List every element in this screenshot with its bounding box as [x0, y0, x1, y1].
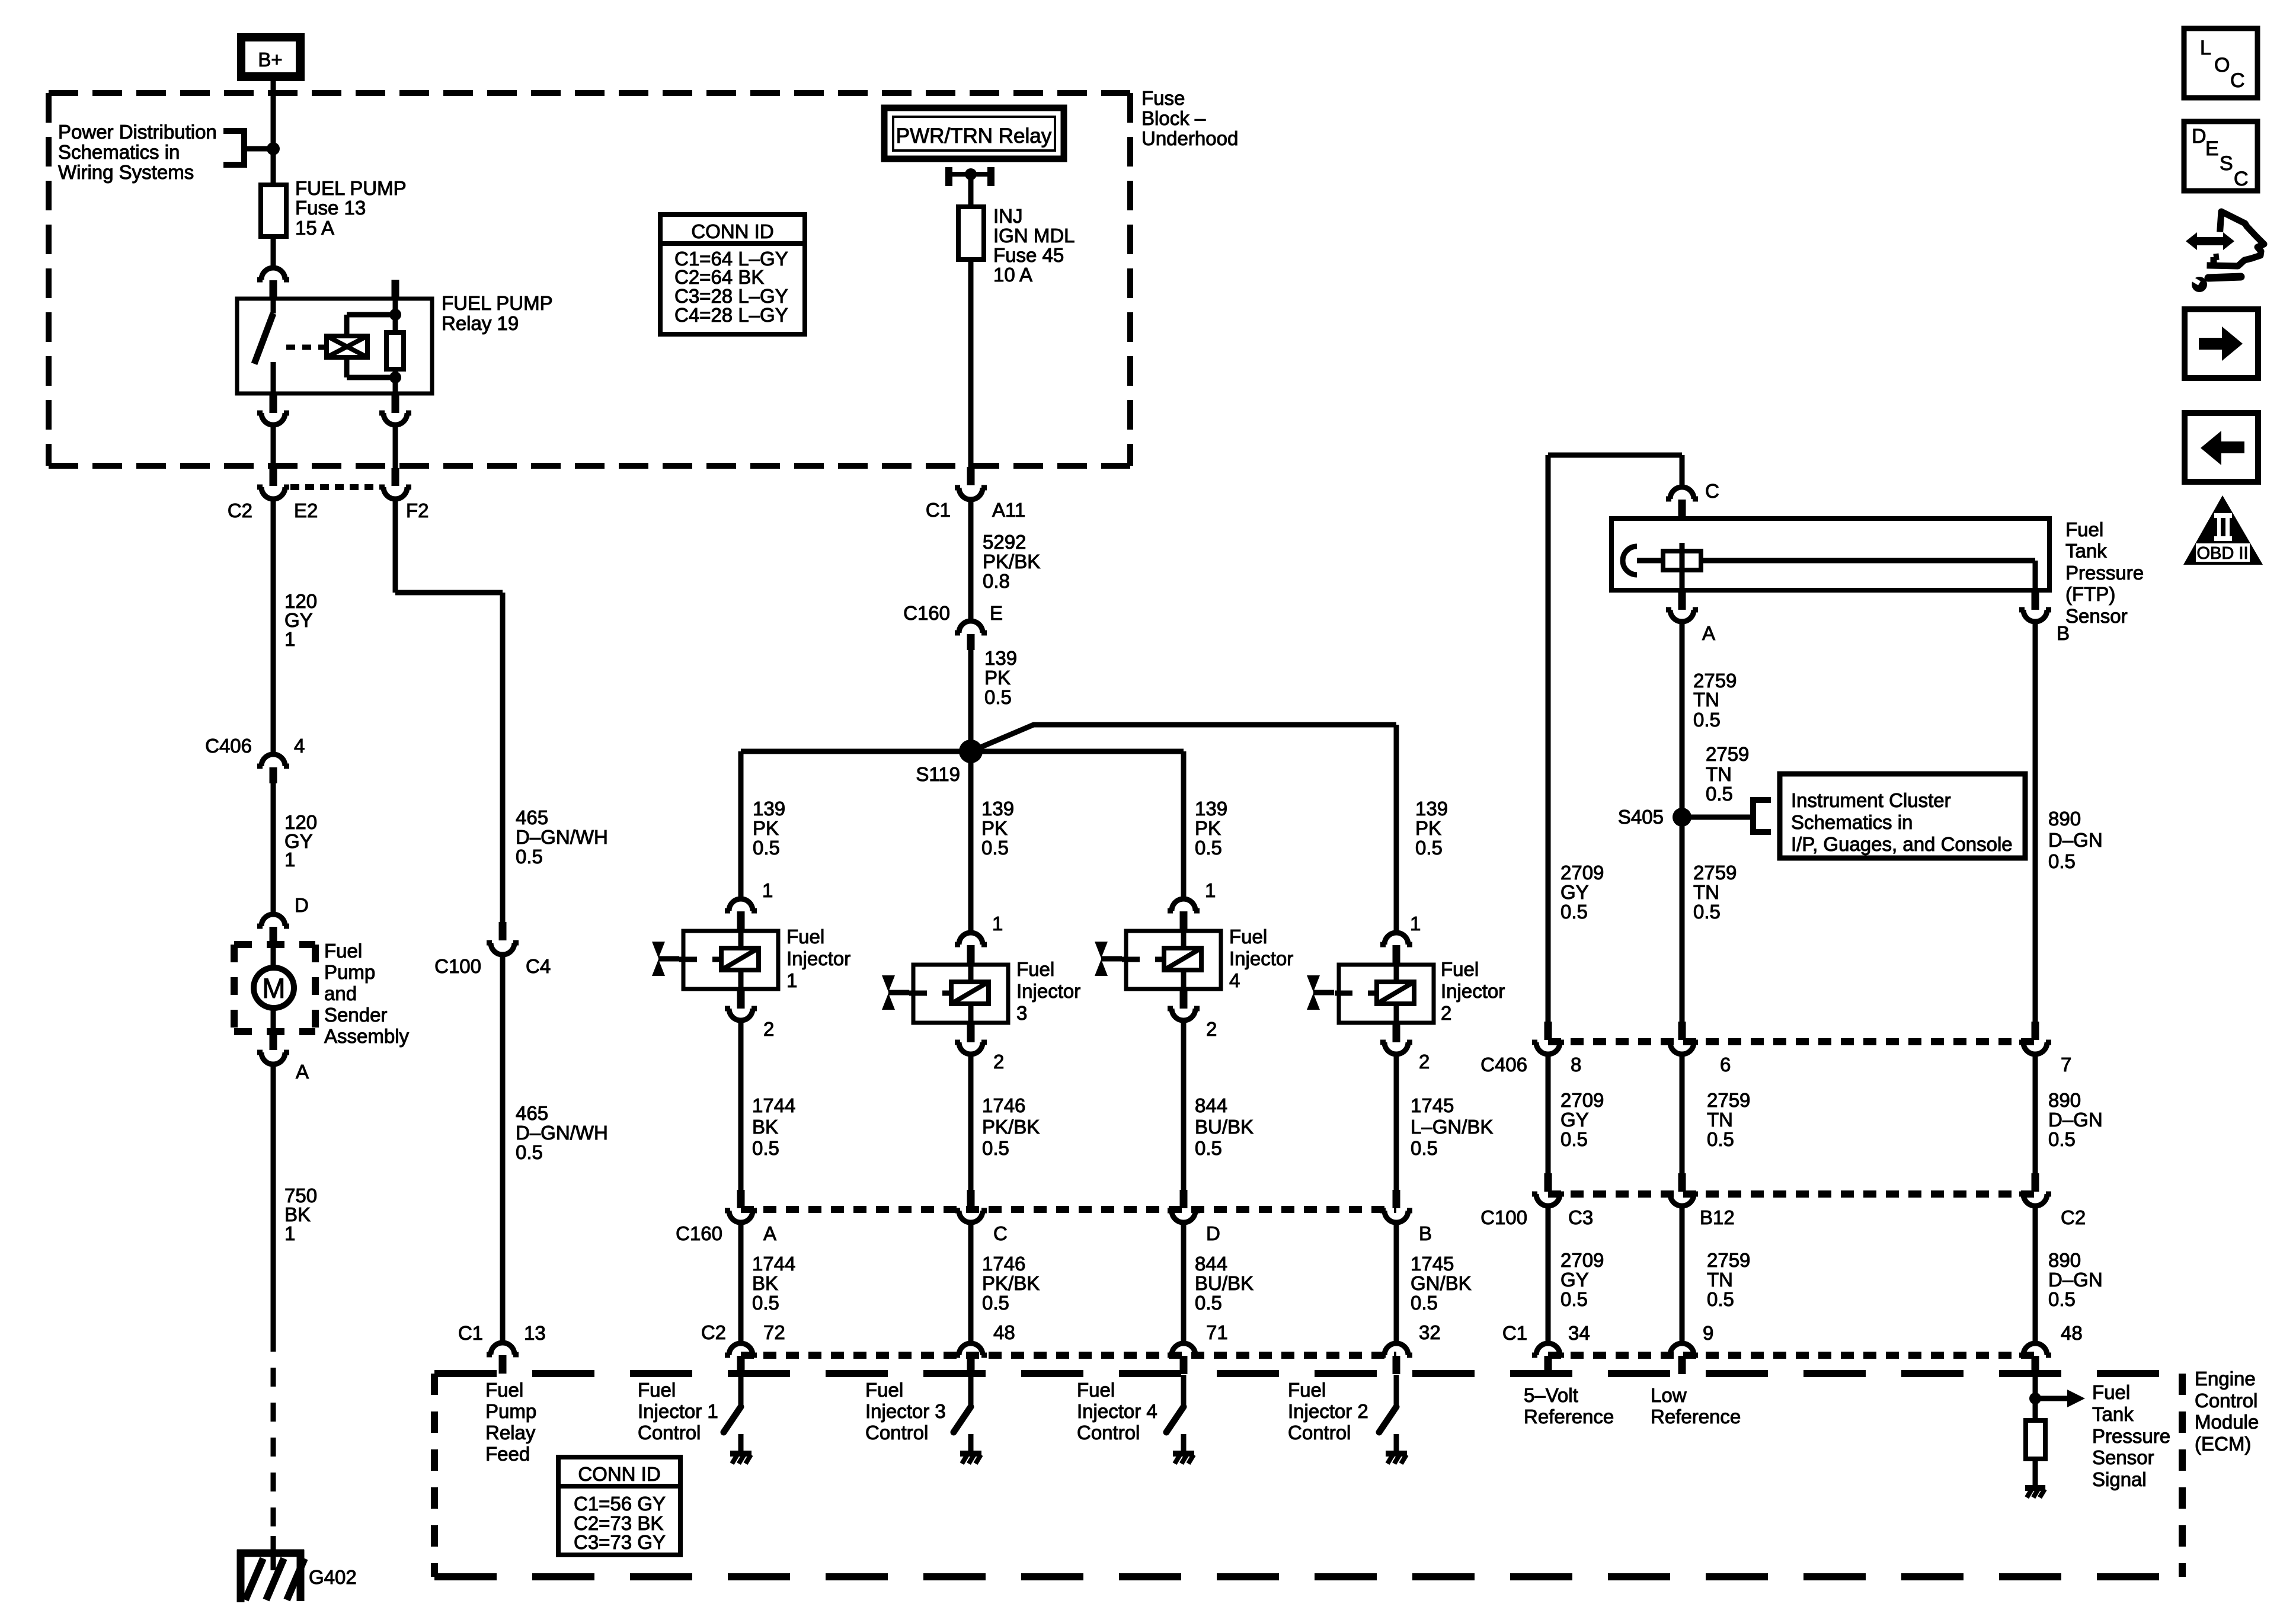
label E2	[294, 500, 318, 521]
svg-text:0.5: 0.5	[752, 1292, 779, 1314]
svg-text:TN: TN	[1693, 881, 1719, 903]
wire B+ to junction	[271, 81, 276, 149]
svg-text:Injector: Injector	[786, 948, 850, 969]
label Fuel Injector 2 Control	[1288, 1379, 1368, 1443]
connector C100 pin C2	[2019, 1173, 2051, 1206]
wire C160B to ECM	[1394, 1223, 1399, 1343]
svg-text:S: S	[2220, 152, 2233, 175]
svg-text:L–GN/BK: L–GN/BK	[1411, 1116, 1493, 1138]
svg-text:F2: F2	[406, 500, 429, 521]
label 2759 TN 0.5 (1)	[1693, 670, 1737, 731]
svg-text:Sensor: Sensor	[2065, 605, 2128, 627]
svg-text:2709: 2709	[1560, 1249, 1604, 1271]
svg-text:BU/BK: BU/BK	[1195, 1272, 1253, 1294]
svg-text:1: 1	[284, 1222, 295, 1244]
label 844 BU/BK 0.5 (upper)	[1195, 1094, 1253, 1159]
ECM driver switch injector 4	[1166, 1375, 1184, 1453]
svg-text:I/P, Guages, and Console: I/P, Guages, and Console	[1791, 833, 2013, 855]
label injector2 pin 2	[1419, 1051, 1430, 1073]
icon vehicle double arrow	[2186, 232, 2234, 250]
label pin 9	[1703, 1322, 1713, 1344]
svg-text:15 A: 15 A	[295, 217, 334, 239]
connector C160 pin B	[1380, 1190, 1412, 1222]
svg-text:1744: 1744	[752, 1094, 795, 1116]
table CONN ID (ECM)	[558, 1457, 680, 1555]
svg-text:GN/BK: GN/BK	[1411, 1272, 1472, 1294]
svg-text:C1=56 GY: C1=56 GY	[574, 1493, 666, 1515]
svg-text:0.5: 0.5	[2048, 1128, 2076, 1150]
svg-text:2709: 2709	[1560, 1089, 1604, 1111]
label C2	[228, 500, 252, 521]
label C160 (row)	[676, 1222, 722, 1244]
wire FTP A to S405	[1680, 622, 1685, 813]
connector ECM C2 pin 71	[1168, 1343, 1200, 1374]
connector pump pin A	[257, 1032, 289, 1064]
svg-text:Instrument Cluster: Instrument Cluster	[1791, 789, 1951, 811]
label 2759 TN 0.5 (4)	[1707, 1089, 1750, 1150]
wire S119 to injector 4 branch	[971, 751, 1184, 898]
reference bracket instrument cluster	[1682, 797, 1771, 835]
ECM driver switch injector 1	[724, 1375, 741, 1453]
label C2 (row)	[701, 1321, 726, 1343]
label pin 4	[294, 735, 305, 757]
svg-text:Fuel: Fuel	[324, 940, 362, 962]
relay PWR/TRN Relay label box	[884, 108, 1064, 159]
svg-text:FUEL PUMP: FUEL PUMP	[295, 177, 407, 199]
svg-text:890: 890	[2048, 1089, 2081, 1111]
label pin A	[763, 1222, 776, 1244]
label 1744 BK 0.5 (lower)	[752, 1253, 795, 1314]
svg-text:PK: PK	[981, 817, 1008, 839]
wire relay right output to F2	[393, 425, 398, 469]
svg-text:PK: PK	[1195, 817, 1221, 839]
svg-text:Pressure: Pressure	[2092, 1425, 2170, 1447]
label pin D	[295, 894, 309, 916]
svg-text:Fuse 45: Fuse 45	[993, 244, 1064, 266]
injector Fuel Injector 2	[1335, 965, 1434, 1023]
svg-text:C100: C100	[434, 955, 481, 977]
valve injector 3 nozzle	[882, 975, 909, 1010]
svg-text:0.5: 0.5	[1411, 1137, 1438, 1159]
wire D to motor	[271, 946, 276, 968]
svg-text:Fuel: Fuel	[2065, 518, 2103, 540]
svg-text:0.5: 0.5	[1195, 1137, 1222, 1159]
svg-text:844: 844	[1195, 1094, 1227, 1116]
ground ECM FTP	[2025, 1488, 2045, 1497]
wire E2 to C406	[271, 500, 276, 754]
svg-text:Injector: Injector	[1441, 980, 1505, 1002]
svg-text:1: 1	[284, 849, 295, 870]
connector row dotted C2	[741, 1352, 1396, 1359]
svg-text:3: 3	[1016, 1002, 1027, 1024]
connector fuse13-relay pin	[257, 268, 289, 299]
svg-text:0.5: 0.5	[1706, 783, 1733, 805]
svg-text:Injector 3: Injector 3	[865, 1400, 946, 1422]
label pin 13	[524, 1322, 546, 1344]
wire C4 to C1/13	[500, 955, 506, 1342]
svg-text:139: 139	[753, 798, 785, 820]
label C406 (row)	[1480, 1054, 1527, 1076]
connector injector3 pin 2	[955, 1024, 987, 1054]
node splice S405	[1673, 808, 1691, 827]
ground ECM injector 4 driver	[1173, 1454, 1194, 1464]
svg-text:S405: S405	[1618, 806, 1664, 828]
wire injector3 to C160/C	[968, 1055, 974, 1190]
svg-text:G402: G402	[309, 1566, 357, 1588]
wire C406/6 to C100/B12	[1680, 1055, 1685, 1173]
svg-text:TN: TN	[1707, 1109, 1733, 1131]
resistor relay coil suppression	[386, 315, 404, 377]
connector C406 pin 6	[1666, 1022, 1698, 1054]
svg-text:Assembly: Assembly	[324, 1025, 410, 1047]
connector C100 pin C3	[1532, 1173, 1564, 1206]
svg-text:C2: C2	[2061, 1206, 2086, 1228]
fuse block internal connection	[945, 167, 994, 207]
connector FTP pin B	[2019, 591, 2051, 622]
fuel pump and sender assembly dashed box	[234, 945, 315, 1032]
svg-text:PK: PK	[1415, 817, 1441, 839]
icon back arrow box	[2185, 413, 2258, 482]
wire A11 to C160/E	[968, 500, 974, 620]
injector Fuel Injector 4	[1122, 931, 1221, 989]
svg-text:Low: Low	[1651, 1384, 1687, 1406]
svg-text:1: 1	[284, 628, 295, 650]
svg-text:0.5: 0.5	[1693, 709, 1721, 731]
label pin B12	[1700, 1206, 1735, 1228]
wire C100/C3 to C1/34	[1546, 1206, 1551, 1343]
label FUEL PUMP Relay 19	[442, 292, 553, 334]
svg-text:A: A	[1702, 622, 1715, 644]
power symbol B+	[237, 33, 305, 81]
wire dashed run to G402	[271, 1333, 276, 1536]
svg-text:10 A: 10 A	[993, 264, 1032, 286]
icon DESC box	[2184, 121, 2257, 191]
svg-text:Fuel: Fuel	[865, 1379, 903, 1401]
svg-text:C1: C1	[926, 499, 951, 521]
node relay coil top	[389, 299, 401, 321]
svg-text:C1: C1	[1502, 1322, 1527, 1344]
svg-text:B: B	[2057, 622, 2070, 644]
svg-text:CONN ID: CONN ID	[578, 1463, 660, 1485]
svg-text:Fuel: Fuel	[485, 1379, 523, 1401]
label 139 PK 0.5 injector3	[981, 798, 1014, 859]
label C406	[205, 735, 252, 757]
svg-text:E2: E2	[294, 500, 318, 521]
svg-text:7: 7	[2061, 1054, 2071, 1076]
svg-text:0.5: 0.5	[752, 1137, 779, 1159]
connector injector4 pin 2	[1168, 990, 1200, 1020]
svg-text:D–GN/WH: D–GN/WH	[516, 1122, 608, 1144]
svg-text:C160: C160	[903, 602, 950, 624]
wire FTP B to C406/7	[2033, 622, 2038, 1022]
label Fuel Injector 2	[1441, 958, 1505, 1024]
label Low Reference	[1651, 1384, 1741, 1427]
icon LOC box	[2184, 28, 2257, 98]
label 1745 L-GN/BK 0.5 (upper)	[1411, 1094, 1493, 1159]
label 2709 GY 0.5 (2)	[1560, 1089, 1604, 1150]
label 139 PK 0.5 injector4	[1195, 798, 1227, 859]
svg-text:5–Volt: 5–Volt	[1524, 1384, 1578, 1406]
label Engine Control Module (ECM)	[2195, 1368, 2259, 1455]
svg-text:Schematics in: Schematics in	[1791, 811, 1913, 833]
label 2759 TN 0.5 (5)	[1707, 1249, 1750, 1310]
label injector4 pin 1	[1205, 879, 1216, 901]
fuse INJ IGN MDL Fuse 45 10A	[958, 207, 984, 260]
svg-text:2759: 2759	[1706, 743, 1749, 765]
svg-text:Control: Control	[638, 1422, 701, 1443]
label Fuel Injector 4 Control	[1077, 1379, 1157, 1443]
svg-text:8: 8	[1571, 1054, 1581, 1076]
valve injector 4 nozzle	[1095, 942, 1122, 976]
svg-text:Tank: Tank	[2092, 1403, 2134, 1425]
label pin B	[1419, 1222, 1432, 1244]
wire relay left output to C2	[271, 425, 276, 469]
motor M fuel pump	[254, 968, 294, 1008]
connector C160 pin E	[955, 621, 987, 650]
svg-text:GY: GY	[1560, 1109, 1589, 1131]
svg-text:Control: Control	[2195, 1390, 2257, 1411]
label C100 (left)	[434, 955, 481, 977]
svg-text:2: 2	[1441, 1002, 1451, 1024]
svg-text:2709: 2709	[1560, 862, 1604, 884]
svg-text:Pump: Pump	[324, 961, 375, 983]
svg-text:Block –: Block –	[1141, 107, 1206, 129]
connector injector2 pin 1	[1380, 933, 1412, 964]
svg-text:D: D	[2192, 125, 2207, 148]
connector C406 pin 7	[2019, 1022, 2051, 1054]
svg-text:0.5: 0.5	[2048, 1288, 2076, 1310]
svg-text:Fuel: Fuel	[638, 1379, 676, 1401]
relay switch blade	[254, 299, 273, 393]
svg-text:0.5: 0.5	[516, 1141, 543, 1163]
svg-text:Feed: Feed	[485, 1443, 530, 1465]
svg-text:PWR/TRN Relay: PWR/TRN Relay	[896, 124, 1052, 148]
wire injector1 to C160/A	[738, 1021, 744, 1190]
svg-text:0.5: 0.5	[1693, 901, 1721, 923]
label C100 (row)	[1480, 1206, 1527, 1228]
engine control module dashed box	[434, 1374, 2182, 1577]
fuse block - underhood dashed box	[49, 93, 1130, 466]
svg-text:Control: Control	[1288, 1422, 1351, 1443]
svg-text:0.5: 0.5	[1415, 837, 1443, 859]
label pin C4	[526, 955, 551, 977]
svg-text:Pump: Pump	[485, 1400, 536, 1422]
label Fuel Pump Relay Feed	[485, 1379, 536, 1465]
label pin 6	[1720, 1054, 1731, 1076]
icon OBD II triangle	[2183, 495, 2263, 565]
label pin 48	[993, 1321, 1015, 1343]
svg-text:Fuel: Fuel	[1077, 1379, 1115, 1401]
wire C406/8 to C100/C3	[1546, 1055, 1551, 1173]
icon vehicle outline	[2210, 212, 2264, 266]
svg-text:72: 72	[763, 1321, 785, 1343]
label INJ IGN MDL Fuse 45 10 A	[993, 205, 1075, 286]
wire junction to fuse 13	[271, 149, 276, 185]
arrow FTP sensor signal	[2035, 1390, 2085, 1407]
label pin A11	[992, 499, 1025, 521]
wire 5V ref loop	[1548, 455, 1682, 1022]
label pin E	[990, 602, 1003, 624]
relay coil loop wires	[347, 315, 395, 377]
svg-text:48: 48	[2061, 1322, 2083, 1344]
svg-text:E: E	[990, 602, 1003, 624]
svg-text:Engine: Engine	[2195, 1368, 2256, 1390]
wire F2 to jog	[395, 500, 503, 922]
fuse FUEL PUMP Fuse 13 15A	[261, 185, 286, 236]
svg-text:Module: Module	[2195, 1411, 2259, 1433]
label injector2 pin 1	[1410, 913, 1421, 934]
svg-text:Fuel: Fuel	[2092, 1381, 2130, 1403]
svg-text:Injector 4: Injector 4	[1077, 1400, 1157, 1422]
connector C160 pin A	[725, 1190, 757, 1222]
label 1746 PK/BK 0.5 (upper)	[982, 1094, 1040, 1159]
wire C160D to ECM	[1181, 1223, 1187, 1343]
svg-text:5292: 5292	[983, 531, 1026, 553]
svg-text:B12: B12	[1700, 1206, 1735, 1228]
svg-text:Power Distribution: Power Distribution	[58, 121, 217, 143]
svg-text:D: D	[1206, 1222, 1220, 1244]
svg-text:A: A	[296, 1061, 309, 1083]
table CONN ID (fuse block)	[660, 215, 805, 334]
svg-text:S119: S119	[916, 763, 960, 785]
label pin 48	[2061, 1322, 2083, 1344]
label 2759 TN 0.5 (2)	[1706, 743, 1749, 805]
svg-text:IGN MDL: IGN MDL	[993, 225, 1075, 247]
label 139 PK 0.5 injector2	[1415, 798, 1448, 859]
svg-text:Fuel: Fuel	[1288, 1379, 1326, 1401]
svg-text:B: B	[1419, 1222, 1432, 1244]
wire motor to A	[271, 1007, 276, 1033]
svg-text:2759: 2759	[1693, 862, 1737, 884]
svg-text:C3=73 GY: C3=73 GY	[574, 1531, 666, 1553]
svg-text:0.5: 0.5	[1411, 1292, 1438, 1314]
node ECM FTP signal tap	[2029, 1393, 2041, 1404]
svg-text:(ECM): (ECM)	[2195, 1433, 2251, 1455]
svg-text:and: and	[324, 982, 357, 1004]
label 139 PK 0.5 injector1	[753, 798, 785, 859]
svg-text:34: 34	[1568, 1322, 1590, 1344]
connector ECM C2 pin 32	[1380, 1343, 1412, 1374]
connector row dotted C1	[1548, 1352, 2035, 1359]
svg-text:GY: GY	[1560, 881, 1589, 903]
connector row dotted C406	[1548, 1038, 2035, 1045]
relay coil feed pin	[392, 280, 399, 299]
svg-text:Relay: Relay	[485, 1422, 536, 1443]
svg-text:0.5: 0.5	[982, 1292, 1009, 1314]
connector ECM C1 pin 48	[2019, 1343, 2051, 1374]
ground G402	[237, 1536, 305, 1602]
svg-text:1744: 1744	[752, 1253, 795, 1275]
label pin A	[296, 1061, 309, 1083]
svg-text:0.5: 0.5	[981, 837, 1009, 859]
svg-text:D–GN: D–GN	[2048, 829, 2103, 851]
svg-text:2759: 2759	[1707, 1249, 1750, 1271]
svg-text:Relay 19: Relay 19	[442, 312, 519, 334]
svg-text:D–GN/WH: D–GN/WH	[516, 826, 608, 848]
svg-text:Reference: Reference	[1524, 1406, 1614, 1427]
connector FTP pin C	[1666, 487, 1698, 518]
svg-text:C: C	[2230, 69, 2245, 92]
wire ECM FTP signal	[2033, 1375, 2038, 1398]
wire C160A to ECM	[738, 1223, 744, 1343]
label circuit 120 GY 1 (lower)	[284, 811, 317, 870]
label 1745 GN/BK 0.5 (lower)	[1411, 1253, 1472, 1314]
svg-text:CONN ID: CONN ID	[691, 220, 773, 242]
svg-text:L: L	[2200, 37, 2211, 59]
label injector4 pin 2	[1206, 1018, 1217, 1040]
wire S119 to injector 2 branch	[971, 725, 1396, 932]
label pin C	[1705, 480, 1719, 502]
injector Fuel Injector 1	[679, 931, 778, 989]
svg-text:C4: C4	[526, 955, 551, 977]
svg-text:0.5: 0.5	[1707, 1128, 1734, 1150]
connector ECM C2 pin 72	[725, 1343, 757, 1374]
svg-text:1: 1	[786, 969, 797, 991]
label 890 D-GN 0.5 (3)	[2048, 1249, 2103, 1310]
label 2759 TN 0.5 (3)	[1693, 862, 1737, 923]
wire C100/C2 to C1/48	[2033, 1206, 2038, 1343]
svg-text:0.5: 0.5	[516, 846, 543, 868]
label F2	[406, 500, 429, 521]
label circuit 5292 PK/BK 0.8	[983, 531, 1040, 592]
svg-text:Schematics in: Schematics in	[58, 141, 180, 163]
connector C160 pin C	[955, 1190, 987, 1222]
svg-text:890: 890	[2048, 808, 2081, 830]
svg-text:4: 4	[1229, 969, 1240, 991]
connector C406 pin 8	[1532, 1022, 1564, 1054]
svg-text:Control: Control	[865, 1422, 928, 1443]
connector C406 pin 4	[257, 754, 289, 783]
svg-text:C406: C406	[1480, 1054, 1527, 1076]
sensor Fuel Tank Pressure FTP box	[1611, 518, 2049, 590]
wire fuse 45 to C1/A11	[968, 260, 974, 468]
label 2709 GY 0.5 (1)	[1560, 862, 1604, 923]
svg-text:Reference: Reference	[1651, 1406, 1741, 1427]
svg-text:Tank: Tank	[2065, 540, 2107, 562]
injector Fuel Injector 3	[909, 965, 1008, 1023]
svg-text:0.5: 0.5	[1195, 837, 1222, 859]
svg-text:6: 6	[1720, 1054, 1731, 1076]
wire C100/B12 to C1/9	[1680, 1206, 1685, 1343]
label C1 (pump feed)	[458, 1322, 483, 1344]
label Power Distribution Schematics in Wiring Systems	[58, 121, 217, 183]
icon forward arrow box	[2185, 309, 2258, 378]
connector injector4 pin 1	[1168, 899, 1200, 930]
label pin 71	[1206, 1321, 1228, 1343]
label C1 (row)	[1502, 1322, 1527, 1344]
svg-text:0.8: 0.8	[983, 570, 1010, 592]
svg-text:TN: TN	[1707, 1269, 1733, 1291]
connector pump pin D	[257, 914, 289, 945]
label pin 7	[2061, 1054, 2071, 1076]
label Fuse Block - Underhood	[1141, 87, 1238, 149]
svg-text:A: A	[763, 1222, 776, 1244]
label pin 72	[763, 1321, 785, 1343]
svg-text:D–GN: D–GN	[2048, 1109, 2103, 1131]
label pin A (FTP)	[1702, 622, 1715, 644]
label S119	[916, 763, 960, 785]
connector row dotted C160	[741, 1206, 1396, 1213]
svg-text:1745: 1745	[1411, 1253, 1454, 1275]
wire S405 to C406/6	[1680, 817, 1685, 1022]
connector C100 pin C4	[487, 922, 519, 955]
label 2709 GY 0.5 (3)	[1560, 1249, 1604, 1310]
node relay coil bottom	[389, 372, 401, 393]
label pin B (FTP)	[2057, 622, 2070, 644]
wire C406/7 to C100/C2	[2033, 1055, 2038, 1173]
svg-text:TN: TN	[1706, 763, 1732, 785]
svg-text:PK/BK: PK/BK	[982, 1272, 1040, 1294]
